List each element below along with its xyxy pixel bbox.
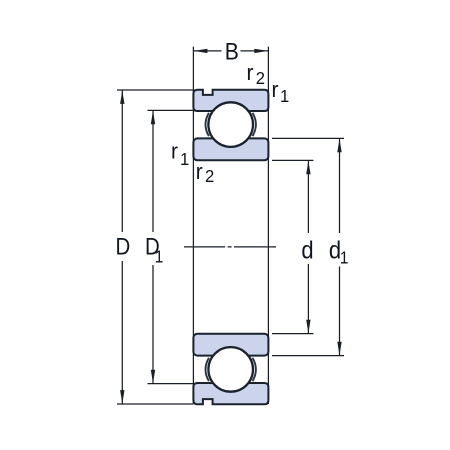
svg-text:d: d	[301, 236, 313, 264]
wire d1 extension top	[272, 137, 344, 139]
svg-text:2: 2	[256, 69, 265, 88]
svg-text:r: r	[171, 139, 178, 164]
ball bottom section	[208, 347, 253, 392]
groove crescent top-right	[253, 113, 256, 136]
wire D1 extension top	[148, 109, 194, 111]
groove crescent bottom-right	[253, 358, 256, 381]
arrow B right	[254, 49, 268, 53]
svg-text:r: r	[247, 61, 254, 86]
wire D dimension line	[121, 90, 123, 404]
arrow D bottom	[120, 390, 124, 404]
arrow B left	[194, 49, 208, 53]
wire d extension bottom	[272, 333, 314, 335]
outer ring bottom section	[193, 383, 268, 404]
arrow d1 top	[337, 139, 341, 153]
inner ring bottom section	[193, 334, 268, 356]
wire B dimension line	[193, 50, 268, 52]
svg-text:r: r	[272, 78, 279, 103]
arrow D1 top	[151, 111, 155, 125]
outer ring top section	[193, 90, 268, 111]
wire d1 extension bottom	[272, 355, 344, 357]
centerline	[184, 246, 276, 248]
wire B left extension line	[192, 47, 194, 404]
groove crescent top-left	[206, 113, 209, 136]
arrow d top	[306, 161, 310, 175]
ball top section	[208, 102, 253, 147]
svg-text:1: 1	[180, 149, 189, 168]
wire B right extension line	[267, 47, 269, 404]
svg-text:D: D	[116, 233, 131, 260]
arrow D1 bottom	[151, 370, 155, 384]
arrow D top	[120, 90, 124, 104]
svg-text:B: B	[225, 38, 239, 65]
svg-text:2: 2	[205, 166, 214, 185]
wire D extension top	[117, 89, 193, 91]
groove crescent bottom-left	[206, 358, 209, 381]
wire D1 dimension line	[152, 110, 154, 383]
wire D1 extension bottom	[148, 383, 194, 385]
wire d dimension line	[307, 160, 309, 333]
svg-text:1: 1	[340, 248, 349, 268]
arrow d bottom	[306, 320, 310, 334]
svg-text:r: r	[196, 159, 203, 184]
arrow d1 bottom	[337, 342, 341, 356]
svg-text:1: 1	[280, 86, 289, 105]
wire D extension bottom	[117, 403, 193, 405]
wire d1 dimension line	[339, 138, 341, 355]
svg-text:1: 1	[155, 247, 164, 267]
wire d extension top	[272, 159, 314, 161]
inner ring top section	[193, 138, 268, 160]
